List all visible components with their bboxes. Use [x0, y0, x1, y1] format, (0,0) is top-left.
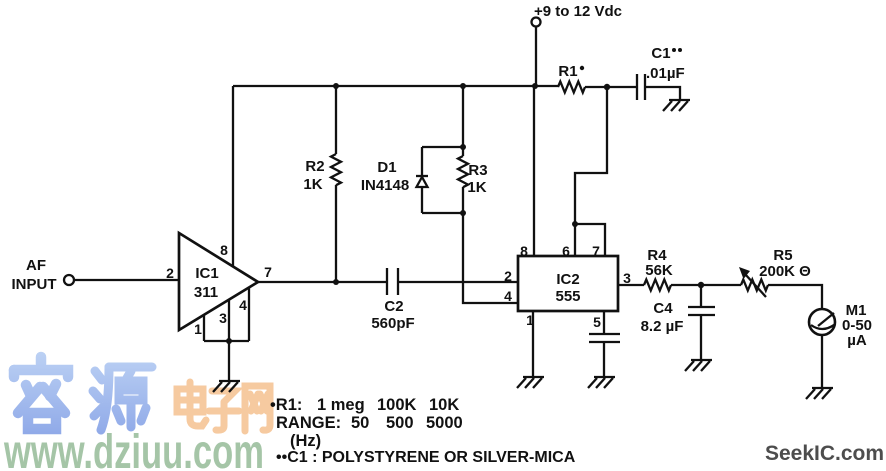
svg-text:C4: C4: [653, 300, 673, 317]
svg-text:3: 3: [623, 270, 631, 286]
node D1 box top: [460, 144, 466, 150]
wire D1 upper lead: [421, 147, 423, 176]
wire supply drop to rail: [535, 27, 537, 87]
capacitor C3: [589, 333, 620, 335]
node supply-rail junction: [532, 83, 538, 89]
svg-text:(Hz): (Hz): [290, 432, 321, 450]
svg-text:200K Θ: 200K Θ: [759, 263, 811, 280]
capacitor C2: [386, 268, 388, 295]
wire D1 lower lead: [421, 187, 423, 213]
svg-text:8: 8: [520, 243, 528, 259]
wire D1 box top: [422, 146, 463, 148]
svg-text:5: 5: [593, 314, 601, 330]
wire IC1 pin4 stub: [248, 287, 250, 341]
input terminal: [64, 275, 74, 285]
watermark 容: [14, 357, 68, 429]
ground C1: [669, 99, 690, 101]
wire C1 to ground: [645, 87, 680, 100]
resistor R2: [331, 86, 341, 282]
capacitor C1: [636, 74, 638, 100]
svg-text:••C1 : POLYSTYRENE OR SILVER-M: ••C1 : POLYSTYRENE OR SILVER-MICA: [276, 449, 576, 466]
op-amp IC2 box: [518, 256, 618, 311]
svg-text:C1: C1: [651, 45, 670, 62]
node R1-C1 junction: [604, 84, 610, 90]
wire jog from R1 node to pins 6 7: [575, 87, 607, 224]
svg-text:8.2 µF: 8.2 µF: [641, 318, 684, 335]
node pin6 junction: [572, 221, 578, 227]
svg-text:8: 8: [220, 242, 228, 258]
svg-text:SeekIC.com: SeekIC.com: [765, 442, 884, 465]
svg-text:C2: C2: [384, 298, 403, 315]
svg-text:µA: µA: [847, 332, 867, 349]
svg-text:4: 4: [504, 288, 512, 304]
wire R4 to R5: [671, 284, 741, 286]
watermark 源: [93, 367, 152, 430]
svg-text:IC1: IC1: [195, 265, 218, 282]
wire top rail left section: [233, 85, 558, 87]
wire C4 to ground: [700, 315, 702, 360]
svg-text:INPUT: INPUT: [12, 276, 57, 293]
wire C2 to IC2 pin2: [398, 281, 518, 283]
svg-text:R3: R3: [468, 162, 487, 179]
svg-text:AF: AF: [26, 257, 46, 274]
ground C4: [691, 359, 712, 361]
svg-text:7: 7: [264, 264, 272, 280]
node R3 top rail: [460, 83, 466, 89]
node IC1 bottom junction: [226, 338, 232, 344]
potentiometer R5 arrow: [745, 274, 766, 297]
wire pin6 stub: [574, 224, 576, 256]
resistor R3: [458, 147, 468, 213]
wire pin8 drop to IC2: [533, 86, 535, 256]
resistor R4: [644, 280, 671, 291]
node D1 box bottom: [460, 210, 466, 216]
svg-text:6: 6: [562, 243, 570, 259]
svg-text:D1: D1: [377, 159, 396, 176]
resistor R1: [558, 82, 585, 93]
watermark 网: [245, 386, 270, 431]
svg-text:R5: R5: [773, 247, 792, 264]
wire C4 stub: [700, 285, 702, 307]
svg-text:4: 4: [239, 297, 247, 313]
svg-text:560pF: 560pF: [371, 315, 414, 332]
svg-text:2: 2: [504, 268, 512, 284]
watermark 电: [177, 382, 206, 426]
ground M1: [812, 387, 833, 389]
svg-text:IN4148: IN4148: [361, 177, 409, 194]
node C4 junction: [698, 282, 704, 288]
svg-text:R2: R2: [305, 158, 324, 175]
wire C3 to ground: [603, 342, 605, 377]
svg-text:•R1:1 meg100K10K: •R1:1 meg100K10K: [270, 396, 459, 414]
svg-text:1K: 1K: [303, 176, 322, 193]
wire pin7 jog: [575, 224, 605, 256]
op-amp IC1 triangle: [179, 233, 258, 330]
potentiometer R5: [741, 280, 768, 291]
wire D1 box bottom: [422, 212, 463, 214]
capacitor C4: [688, 306, 715, 308]
svg-text:7: 7: [592, 243, 600, 259]
svg-text:311: 311: [194, 284, 218, 301]
svg-text:1K: 1K: [467, 179, 486, 196]
wire left vertical to IC1 pin 8: [232, 86, 234, 266]
meter M1: [809, 309, 835, 335]
svg-text:2: 2: [166, 265, 174, 281]
svg-text:www.dziuu.com: www.dziuu.com: [3, 426, 264, 471]
svg-text:3: 3: [219, 310, 227, 326]
wire meter to ground: [821, 335, 823, 388]
wire IC1 pin3 stub: [228, 300, 230, 341]
svg-text:+9 to 12 Vdc: +9 to 12 Vdc: [534, 3, 622, 20]
supply terminal +9 to 12 Vdc: [532, 18, 541, 27]
watermark 子: [209, 391, 239, 430]
wire IC1 pin1 stub: [203, 315, 205, 341]
wire R3 branch down to pin 4: [463, 213, 518, 303]
wire input to IC1: [74, 279, 179, 281]
wire IC1 output: [258, 281, 387, 283]
svg-text:56K: 56K: [645, 262, 673, 279]
wire IC2 pin1 to ground: [532, 311, 534, 377]
wire IC2 pin5 stub: [603, 311, 605, 334]
svg-text:RANGE:505005000: RANGE:505005000: [276, 414, 463, 432]
svg-text:555: 555: [555, 288, 580, 305]
wire IC1 bottom bus: [204, 340, 249, 342]
node R2 bottom: [333, 279, 339, 285]
wire R1 to C1 node: [585, 86, 637, 88]
node R2 top: [333, 83, 339, 89]
svg-text:1: 1: [194, 321, 202, 337]
svg-text:.01µF: .01µF: [646, 65, 685, 82]
ground C3: [594, 376, 615, 378]
svg-text:IC2: IC2: [556, 271, 579, 288]
svg-text:R1: R1: [558, 63, 577, 80]
wire IC2 pin3 out: [618, 284, 644, 286]
ground IC2 pin1: [523, 376, 544, 378]
diode D1: [416, 175, 428, 177]
ground IC1: [219, 380, 240, 382]
wire to IC1 ground: [228, 341, 230, 381]
wire rail down to D1/R3 box: [462, 86, 464, 147]
wire R5 to meter: [768, 285, 822, 309]
